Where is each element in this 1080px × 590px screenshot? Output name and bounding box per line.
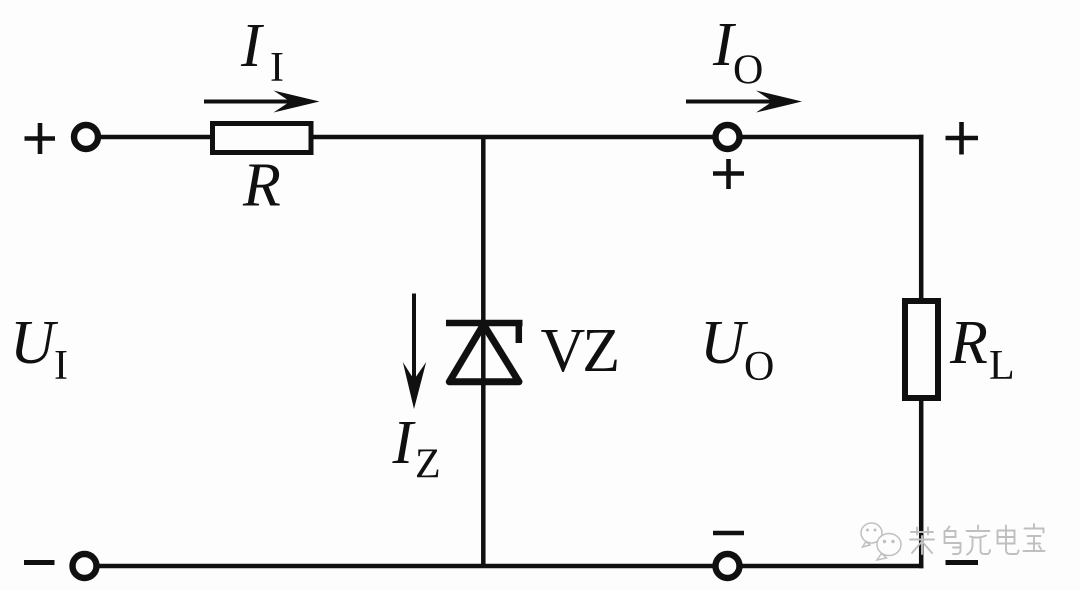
arrow for current I_I xyxy=(204,91,320,113)
svg-text:I: I xyxy=(270,45,284,91)
polarity + at input xyxy=(25,123,56,154)
watermark icon (chat bubbles) xyxy=(861,523,901,560)
polarity - at load bottom xyxy=(946,560,979,565)
svg-text:R: R xyxy=(949,309,988,377)
polarity - at input bottom xyxy=(24,560,55,565)
wire top-left: input terminal to resistor R xyxy=(99,135,214,140)
polarity + at load top xyxy=(946,122,979,155)
resistor R_L (load) xyxy=(905,301,938,398)
svg-text:I: I xyxy=(392,409,417,477)
char 充 xyxy=(967,526,991,555)
svg-text:O: O xyxy=(733,48,763,94)
input terminal bottom (open circle) xyxy=(73,554,97,578)
zener diode VZ cathode bar xyxy=(446,320,523,327)
wire top-right: output terminal to corner xyxy=(742,135,924,140)
input terminal top (open circle) xyxy=(74,125,98,149)
zener diode VZ cathode hook xyxy=(516,323,523,343)
char 鸟 xyxy=(945,527,961,555)
svg-text:U: U xyxy=(10,309,59,377)
wire right vertical upper: corner to R_L xyxy=(919,135,924,301)
svg-text:I: I xyxy=(54,343,68,389)
polarity - at output bottom xyxy=(713,531,744,536)
zener diode VZ triangle (anode) xyxy=(449,325,519,382)
wire bottom-left: input terminal to output terminal bottom xyxy=(97,564,714,569)
resistor R xyxy=(213,124,312,153)
output terminal bottom (open circle) xyxy=(716,554,740,578)
arrow for current I_Z xyxy=(403,294,426,410)
svg-text:U: U xyxy=(700,309,749,377)
wire bottom-right: output terminal bottom to right corner xyxy=(742,564,924,569)
char 电 xyxy=(998,526,1019,555)
svg-text:O: O xyxy=(744,344,774,390)
char 宝 xyxy=(1024,524,1045,551)
svg-text:R: R xyxy=(242,152,281,220)
watermark text 菜鸟充电宝 (vector strokes) xyxy=(910,524,1045,555)
char 菜 xyxy=(910,528,934,555)
polarity + at output top xyxy=(713,159,744,189)
arrow for current I_O xyxy=(686,91,802,113)
svg-text:VZ: VZ xyxy=(541,317,618,385)
svg-text:Z: Z xyxy=(415,442,441,488)
wire zener branch vertical through node A xyxy=(481,137,486,566)
output terminal top (open circle) xyxy=(716,125,740,149)
svg-text:I: I xyxy=(240,12,265,80)
wire top-mid: resistor R to output terminal xyxy=(311,135,714,140)
wire right vertical lower: R_L to bottom wire xyxy=(919,398,924,568)
svg-text:L: L xyxy=(989,343,1015,389)
